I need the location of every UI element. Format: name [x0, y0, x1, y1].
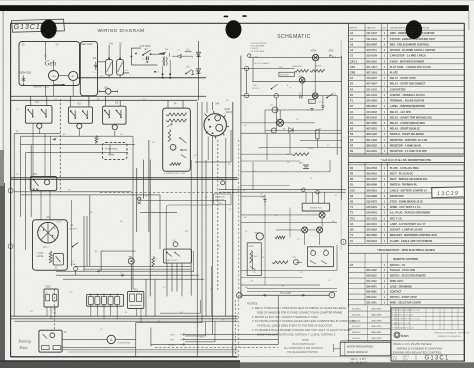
governor unit: [163, 108, 191, 171]
wire schematic low: [241, 206, 337, 292]
relay K1: [25, 100, 52, 123]
note TB1: [252, 85, 260, 90]
generator armature GEN: [49, 71, 59, 81]
node CR5: [248, 54, 259, 59]
choke assembly: [163, 240, 191, 263]
parts table frame: [349, 23, 388, 307]
mounting note: [214, 194, 232, 205]
resistor R5: [316, 128, 323, 138]
onan logo: [394, 332, 409, 338]
wire trunk mid-left: [100, 140, 238, 296]
scan edge band bottom: [0, 361, 240, 368]
wires choke to terminals: [91, 205, 213, 323]
engine monitor box: [33, 216, 68, 270]
dashed drop wire: [53, 289, 55, 330]
labels K5 K3: [251, 281, 286, 288]
wires upper-mid horizontals: [14, 192, 160, 249]
resistor ADRI: [310, 70, 324, 73]
wire mesh left: [14, 129, 135, 316]
bus line 2: [11, 95, 206, 97]
switch S4b: [142, 48, 162, 56]
relay K2 coil: [77, 123, 82, 128]
wire row A: [56, 270, 194, 273]
wire schematic rows2: [241, 56, 342, 298]
aux wire loop: [131, 48, 158, 65]
ignition breaker disc: [38, 222, 59, 248]
title block bottom row: [392, 355, 416, 361]
transformer T4: [158, 48, 170, 66]
wire to C3/D1: [98, 45, 121, 78]
lamp AOM: [299, 75, 306, 83]
connector arrow: [334, 344, 341, 352]
capacitor C1a: [142, 56, 148, 62]
misc schematic wires: [241, 133, 330, 190]
note C1: [70, 225, 78, 230]
low oil pressure switch: [37, 251, 64, 269]
main bus N1: [78, 76, 206, 78]
relay K1 coil: [37, 123, 42, 128]
capacitor C3s: [307, 109, 314, 112]
magneto studs: [205, 111, 230, 139]
junction dots on bus: [130, 60, 172, 79]
resistor R1A: [272, 261, 288, 264]
exciter AC: [69, 71, 78, 80]
coil L1: [178, 49, 192, 52]
capacitor C1: [298, 93, 302, 99]
wire gen internals: [46, 42, 69, 76]
top scan bar: [0, 5, 469, 11]
dashed drop bottom-middle: [235, 300, 237, 357]
wire corner returns: [160, 300, 215, 342]
resistor R4: [241, 153, 308, 156]
switch S4: [93, 57, 98, 74]
relay K2: [68, 101, 92, 123]
onan address: [391, 331, 470, 340]
capacitor C6v: [261, 195, 266, 207]
remote control table: [349, 253, 465, 305]
switch S10: [271, 85, 278, 90]
running relay: [39, 330, 67, 352]
to load line: [237, 292, 335, 298]
switch S3: [72, 243, 79, 248]
star marks: [287, 84, 292, 91]
switch S1b: [326, 93, 337, 98]
punch hole left: [41, 20, 57, 39]
model number box: [340, 341, 391, 356]
lamp A5: [276, 118, 284, 126]
resistor R6: [152, 257, 158, 266]
ink dash right of middle hole: [242, 15, 246, 17]
contact box K1A: [308, 247, 334, 267]
separator band: [349, 246, 465, 254]
capacitor C3: [106, 42, 114, 75]
drawing title: [391, 342, 464, 354]
terminal strip TB: [87, 294, 124, 309]
gen winding G3: [317, 227, 323, 233]
junction box corner: [136, 323, 202, 357]
coil L4: [123, 70, 130, 74]
fuse E1: [220, 179, 225, 185]
border node markers: [8, 188, 13, 249]
box B03: [309, 99, 316, 103]
title block frame: [391, 308, 464, 361]
run-stop box: [279, 72, 295, 76]
relay K5: [30, 172, 56, 191]
parts table rows: [349, 32, 465, 243]
marker node right: [341, 239, 346, 244]
junction node: [138, 197, 141, 204]
magneto plug end view: [204, 114, 226, 136]
ammeter converter: [62, 335, 136, 344]
lamp T1: [312, 93, 318, 99]
motor A2M: [247, 231, 263, 275]
bus pair mid: [11, 178, 238, 180]
sub note block: [284, 339, 323, 354]
to load tag: [70, 261, 77, 275]
relay A3 row: [271, 128, 293, 133]
lamp A2DP: [311, 50, 319, 61]
parts table header: [349, 27, 465, 31]
resistor ADM: [294, 70, 308, 73]
capacitor C5: [319, 102, 325, 110]
schematic lower extra: [241, 188, 337, 278]
schematic note text: [251, 43, 268, 53]
mid table section band: [349, 154, 465, 163]
relay CR3: [128, 290, 144, 309]
revision grid: [391, 308, 464, 330]
ink dash left of middle hole: [224, 16, 229, 18]
scattered wire tags: [16, 99, 338, 340]
sheet number box G13C1: [12, 19, 65, 32]
notes block: [247, 302, 355, 337]
selector switch row: [244, 62, 321, 70]
resistor block CR2: [44, 286, 58, 307]
resistor field: [275, 236, 285, 239]
resistor CR1: [95, 136, 101, 144]
left continuation rows: [349, 305, 391, 341]
diode D3: [172, 54, 194, 59]
regulator box: [80, 42, 97, 96]
capacitor C4: [270, 104, 278, 113]
relay K3 coil: [112, 125, 117, 130]
wire row B: [56, 274, 199, 277]
bottom bus lines: [11, 316, 238, 321]
battery BAT: [299, 161, 309, 168]
breaker A2M: [329, 50, 336, 58]
punch hole middle: [226, 20, 242, 38]
stamp 13C19: [432, 187, 465, 198]
scan edge strip left: [0, 183, 5, 368]
gen winding G2: [302, 227, 308, 233]
punch hole right: [406, 20, 422, 39]
shunt field box: [302, 203, 329, 211]
wire schematic row1: [252, 80, 342, 82]
generator G1 outline: [19, 42, 80, 86]
switch cluster SP1: [185, 67, 199, 75]
field choke marks: [22, 76, 25, 85]
node S1: [274, 94, 278, 98]
gen winding G1: [275, 212, 326, 218]
rectifier D1: [117, 42, 124, 75]
voltage spec: [350, 357, 368, 365]
node N: [244, 93, 248, 97]
bottom left line: [391, 360, 464, 362]
wire verticals low-left: [75, 195, 191, 271]
dashed riser wire: [59, 99, 61, 192]
wire drops from gen: [46, 81, 89, 106]
wire row C: [63, 278, 204, 280]
wires to schematic: [219, 190, 346, 193]
relay K3: [103, 101, 126, 125]
ground stud GB1: [128, 257, 134, 265]
end view caption: [225, 109, 233, 114]
shunt field label and arrow: [33, 84, 65, 89]
running relay label: [18, 339, 31, 350]
wire feeder top: [11, 96, 198, 108]
arrester column: [196, 41, 200, 100]
fuse E4: [99, 87, 118, 95]
terminal tags TON STN NOTB: [169, 333, 185, 346]
trunk wires center: [191, 102, 231, 357]
schematic extra rails: [241, 54, 342, 161]
governor unit dashed box: [102, 142, 127, 159]
wire drops relay row to K5: [33, 123, 72, 266]
wire verticals lower trunk: [194, 200, 226, 316]
return wires bottom: [47, 296, 278, 352]
